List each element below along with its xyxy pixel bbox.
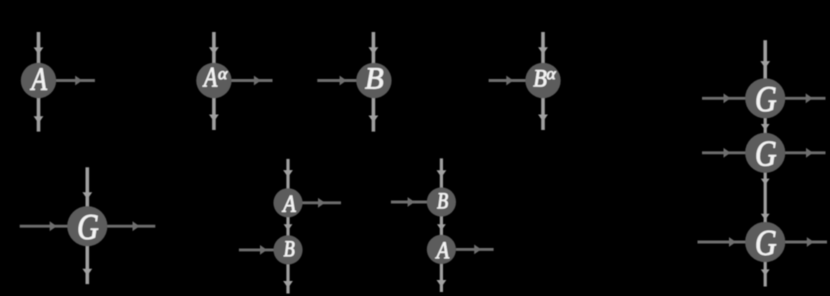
node A (pair A-B, top) xyxy=(273,188,302,217)
wire: link B to A (pair B-A) xyxy=(437,216,446,235)
wire: output from A (bottom, pair B-A) xyxy=(437,264,447,292)
wire: link A to B (pair A-B) xyxy=(284,217,293,236)
wire: input into B (top, pair B-A) xyxy=(437,158,447,188)
wire: bond input into B (left) xyxy=(317,76,357,86)
node A (tensor A) xyxy=(21,63,56,98)
node B^alpha (updated tensor B) xyxy=(525,63,560,98)
node B (tensor B) xyxy=(356,63,391,98)
node G2 (gate G, middle of chain) xyxy=(745,133,785,173)
node B (pair B-A, top) xyxy=(427,187,456,216)
wire: input into G1 (top) xyxy=(760,40,770,79)
wire: physical input into B (top) xyxy=(369,32,379,64)
wire: bond input into B (left, pair A-B) xyxy=(239,245,274,255)
wire: bond output from A (right, pair A-B) xyxy=(302,198,341,208)
wire: input into A (top, pair A-B) xyxy=(283,159,293,189)
wire: bond output from G3 (right) xyxy=(784,237,827,247)
wire: bond output from G (right) xyxy=(106,221,155,231)
wire: link G2 to G3 xyxy=(761,172,770,223)
wire: bond output from A (right, pair B-A) xyxy=(456,245,494,255)
wire: physical input into A&#945; (top) xyxy=(209,32,219,64)
wire: bond input into B (left, pair B-A) xyxy=(391,197,427,207)
wire: output from B (bottom, pair A-B) xyxy=(283,264,293,293)
wire: physical output from A&#945; (bottom) xyxy=(209,97,219,130)
wire: physical output from B (bottom) xyxy=(369,97,379,132)
wire: bond input into G1 (left) xyxy=(702,93,747,103)
wire: output from G3 (bottom) xyxy=(761,262,770,287)
wire: physical output from A (bottom) xyxy=(34,97,44,132)
node G1 (gate G, top of chain) xyxy=(745,78,785,118)
wire: physical input into G (top) xyxy=(82,167,92,207)
node G3 (gate G, bottom of chain) xyxy=(745,222,785,262)
node A (pair B-A, bottom) xyxy=(427,235,456,264)
wire: physical input into B&#945; (top) xyxy=(538,32,548,64)
wire: bond output from A (right) xyxy=(55,76,95,86)
node G (four-index gate) xyxy=(67,206,107,246)
wire: bond output from A&#945; (right) xyxy=(231,76,273,86)
wire: bond output from G2 (right) xyxy=(784,148,826,158)
wire: physical output from B&#945; (bottom) xyxy=(538,97,548,130)
node B (pair A-B, bottom) xyxy=(273,235,302,264)
wire: bond output from G1 (right) xyxy=(784,93,826,103)
wire: physical output from G (bottom) xyxy=(82,246,92,285)
wire: bond input into B&#945; (left) xyxy=(489,76,527,86)
wire: bond input into G3 (left) xyxy=(698,237,746,247)
wire: physical input into A (top) xyxy=(34,32,44,64)
wire: bond input into G (left) xyxy=(20,221,68,231)
wire: link G1 to G2 xyxy=(761,117,770,134)
wire: bond input into G2 (left) xyxy=(702,148,747,158)
node A^alpha (updated tensor A) xyxy=(196,63,231,98)
